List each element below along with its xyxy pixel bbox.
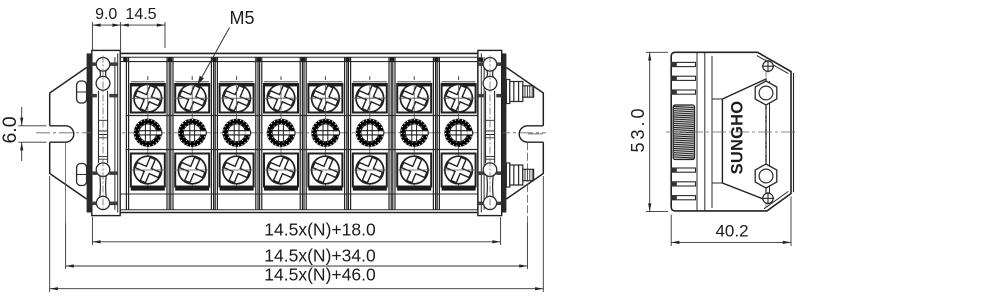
bone cutout bottom: circle C bbox=[483, 163, 497, 177]
top hex nut bbox=[755, 81, 777, 105]
dimension 9.0 bbox=[92, 22, 120, 50]
left body edge bar bbox=[87, 53, 92, 212]
end plate raised box bbox=[92, 50, 120, 215]
dimension 53.0 bbox=[646, 52, 668, 211]
ear outline bbox=[506, 68, 543, 200]
label panel bbox=[722, 79, 766, 200]
terminal module 3 bbox=[214, 57, 258, 210]
body top edge bbox=[92, 52, 502, 54]
right edge inner line bbox=[793, 73, 795, 192]
clamp hatch bars bottom bbox=[479, 171, 484, 175]
bottom cross screw bbox=[763, 193, 773, 203]
ear centerline dash bbox=[528, 133, 543, 135]
terminal module 8 bbox=[436, 57, 480, 210]
bone cutout top: circle A bbox=[96, 58, 110, 72]
top cross screw bbox=[763, 61, 773, 71]
bottom chamfer inner line bbox=[764, 191, 788, 208]
bone cutout top: circle B bbox=[483, 76, 497, 90]
svg-text:40.2: 40.2 bbox=[715, 222, 748, 241]
dimension 14.5x(N)+18.0 bbox=[92, 217, 500, 245]
terminal module 4 bbox=[259, 57, 303, 210]
right body edge bar bbox=[502, 53, 507, 212]
middle window bbox=[486, 91, 495, 163]
bone waist bottom bbox=[100, 176, 106, 198]
svg-text:14.5x(N)+34.0: 14.5x(N)+34.0 bbox=[264, 245, 376, 265]
end plate centerline bbox=[489, 56, 491, 211]
terminal module 7 bbox=[392, 57, 436, 210]
top chamfer inner line bbox=[757, 56, 789, 74]
dimension 14.5x(N)+46.0 bbox=[50, 176, 544, 292]
side centerline horizontal bbox=[666, 131, 796, 133]
slot center vertical line bbox=[526, 142, 528, 223]
clamp hatch bars top bbox=[479, 62, 484, 66]
dimension 14.5x(N)+34.0 bbox=[66, 223, 528, 269]
clamp screw head bottom (side) bbox=[77, 164, 87, 186]
right end plate bbox=[478, 50, 502, 215]
terminal module 6 bbox=[348, 57, 392, 210]
dimension 6.0 bbox=[18, 107, 46, 161]
hex bolt top (side view) bbox=[506, 80, 533, 104]
end plate centerline bbox=[102, 56, 104, 211]
hex bolt bottom (side view) bbox=[506, 163, 533, 187]
clamp screw head top (side) bbox=[77, 81, 87, 103]
left mounting ear bbox=[50, 68, 87, 224]
slot center vertical line bbox=[65, 142, 67, 223]
bone cutout top: circle B bbox=[96, 76, 110, 90]
svg-text:14.5: 14.5 bbox=[125, 6, 156, 23]
terminal module 2 bbox=[170, 57, 214, 210]
svg-text:M5: M5 bbox=[229, 8, 254, 28]
svg-text:9.0: 9.0 bbox=[95, 6, 117, 23]
svg-text:53.0: 53.0 bbox=[628, 105, 648, 152]
clamp hatch bars top bbox=[92, 62, 97, 66]
end plate raised box bbox=[478, 50, 502, 215]
left end plate bbox=[92, 50, 121, 215]
bone cutout bottom: circle D bbox=[96, 196, 109, 209]
body top inner line bbox=[92, 56, 502, 58]
dimension 40.2 bbox=[671, 197, 791, 247]
svg-text:14.5x(N)+18.0: 14.5x(N)+18.0 bbox=[264, 220, 376, 240]
bone waist top bbox=[487, 70, 493, 77]
clamp hatch bars bottom bbox=[92, 171, 97, 175]
svg-text:6.0: 6.0 bbox=[0, 116, 21, 143]
body bottom edge bbox=[92, 212, 502, 214]
end plate frame lines bbox=[115, 53, 118, 212]
bottom hex nut bbox=[755, 164, 777, 188]
bone cutout bottom: circle C bbox=[96, 163, 110, 177]
middle window bbox=[99, 91, 108, 163]
bone cutout top: circle A bbox=[483, 58, 497, 72]
end plate frame lines bbox=[481, 53, 484, 212]
horizontal centerline bbox=[36, 132, 546, 134]
body bottom inner line bbox=[92, 209, 502, 211]
right mounting ear bbox=[506, 68, 543, 224]
terminal module 1 bbox=[126, 57, 170, 210]
ear slot bbox=[50, 126, 74, 142]
side centerline vertical bbox=[765, 57, 767, 207]
bone waist bottom bbox=[487, 176, 493, 198]
bone waist top bbox=[100, 70, 106, 77]
top rail line bbox=[92, 61, 502, 63]
inner section lines bbox=[696, 53, 698, 211]
ear outline bbox=[50, 68, 87, 200]
knurled wheel (side) bbox=[673, 105, 694, 160]
bottom rail line bbox=[92, 193, 502, 195]
dimension 14.5 bbox=[121, 22, 165, 48]
side view body outline bbox=[671, 52, 791, 211]
bone cutout bottom: circle D bbox=[483, 196, 496, 209]
comb tooth slots bbox=[671, 62, 695, 199]
ear slot bbox=[519, 126, 543, 142]
svg-text:14.5x(N)+46.0: 14.5x(N)+46.0 bbox=[264, 265, 376, 285]
rail notches at partitions bbox=[123, 57, 483, 61]
svg-text:SUNGHO: SUNGHO bbox=[729, 101, 747, 175]
terminal module 5 bbox=[303, 57, 347, 210]
